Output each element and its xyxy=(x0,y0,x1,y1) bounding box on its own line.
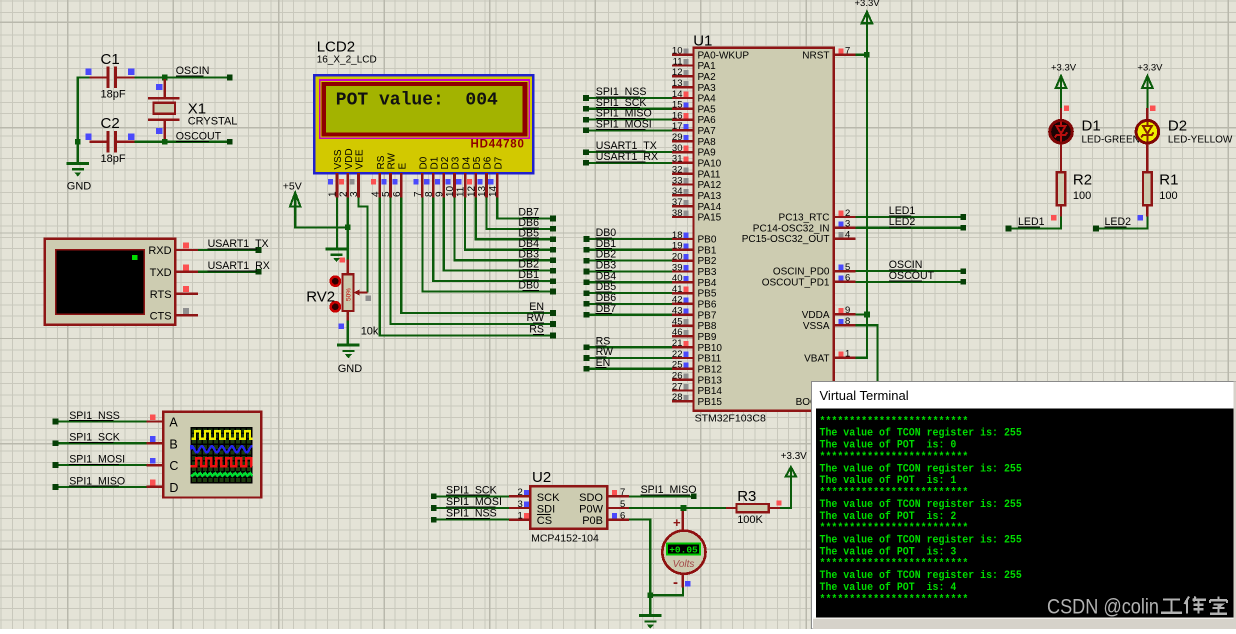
svg-text:DB7: DB7 xyxy=(596,303,617,315)
junction VDDA/+3.3V xyxy=(864,312,870,318)
wire LCD RS xyxy=(380,198,553,336)
svg-text:30: 30 xyxy=(672,143,683,154)
svg-text:SPI1_NSS: SPI1_NSS xyxy=(69,410,120,422)
pin state square LCD pin 5 xyxy=(382,179,387,184)
svg-text:13: 13 xyxy=(477,185,488,197)
wire SPI1_SCK (U2 side) xyxy=(434,495,509,497)
pin D of oscilloscope xyxy=(147,481,179,495)
svg-text:P0B: P0B xyxy=(582,515,603,527)
svg-text:HD44780: HD44780 xyxy=(470,138,524,150)
svg-text:16: 16 xyxy=(672,110,683,121)
pin 1 CS of U2 xyxy=(509,510,552,527)
svg-text:+3.3V: +3.3V xyxy=(855,0,881,9)
pin state square voltmeter minus xyxy=(685,581,690,586)
label USART1_TX xyxy=(208,238,269,250)
pin state square U2 pin 2 xyxy=(524,490,529,495)
svg-text:OSCOUT_PD1: OSCOUT_PD1 xyxy=(762,278,830,289)
wire P0B to ground xyxy=(629,520,650,616)
pin state square U1 pin 41 xyxy=(683,287,688,292)
svg-text:14: 14 xyxy=(672,89,683,100)
svg-text:VSSA: VSSA xyxy=(803,321,830,332)
svg-text:PC14-OSC32_IN: PC14-OSC32_IN xyxy=(753,223,830,234)
label LED1 (U1 side) xyxy=(889,205,916,217)
label USART1_RX xyxy=(208,260,270,272)
terminal SPI1_MISO (U1 side) xyxy=(583,117,589,123)
pin state square RTS xyxy=(183,286,189,292)
svg-text:41: 41 xyxy=(672,284,683,295)
wire LCD RW xyxy=(391,198,554,325)
svg-text:The value of TCON register is:: The value of TCON register is: 255 xyxy=(820,570,1023,582)
pin BOOT0 of U1 (partially hidden) xyxy=(796,397,830,408)
svg-text:SPI1_MOSI: SPI1_MOSI xyxy=(69,454,125,466)
svg-text:7: 7 xyxy=(620,487,625,498)
wire voltmeter minus to ground xyxy=(650,588,683,596)
svg-text:B: B xyxy=(169,437,177,451)
svg-text:33: 33 xyxy=(672,175,683,186)
pin 9 VDDA of U1 xyxy=(802,305,856,321)
pin state square LCD pin 4 xyxy=(371,179,376,184)
terminal DB4 (LCD side) xyxy=(550,247,556,253)
svg-text:CRYSTAL: CRYSTAL xyxy=(188,116,238,128)
wire TXD-USART1_RX xyxy=(198,271,259,273)
pin state square R2 bottom xyxy=(1051,215,1056,220)
wire DB7 (U1 side) xyxy=(587,314,673,316)
pin 7 SDO of U2 xyxy=(579,487,629,504)
pin 2 SCK of U2 xyxy=(509,487,560,504)
svg-text:USART1_RX: USART1_RX xyxy=(596,151,658,163)
svg-text:The value of TCON register is:: The value of TCON register is: 255 xyxy=(820,535,1023,547)
svg-text:RW: RW xyxy=(387,152,398,169)
svg-text:PB6: PB6 xyxy=(698,300,717,311)
terminal USART1_RX (U1 side) xyxy=(583,160,589,166)
wire SPI1_MISO (U1 side) xyxy=(586,118,672,120)
svg-text:D1: D1 xyxy=(1082,118,1101,135)
svg-text:9: 9 xyxy=(845,305,850,316)
voltmeter xyxy=(662,511,705,591)
svg-text:CSDN @colin: CSDN @colin xyxy=(1047,596,1159,619)
pin CTS of virtual terminal xyxy=(150,311,198,323)
label EN (U1 side) xyxy=(596,357,611,369)
ground GND (LCD VSS) xyxy=(325,249,347,262)
svg-text:7: 7 xyxy=(845,46,850,57)
node X1 top state square xyxy=(156,84,162,90)
wire C1-to-OSCIN xyxy=(135,76,230,78)
label OSCIN (U1 side) xyxy=(889,259,923,271)
pin 40 PB4 of U1 xyxy=(672,273,717,289)
svg-text:PB3: PB3 xyxy=(698,267,717,278)
wire DB0 (U1 side) xyxy=(587,238,673,240)
terminal SPI1_NSS (U1 side) xyxy=(583,95,589,101)
pin 11 D4 of LCD2 xyxy=(456,156,473,197)
wire LCD VDD down xyxy=(347,198,349,260)
svg-text:7: 7 xyxy=(413,191,424,197)
pin 37 PA14 of U1 xyxy=(672,197,722,213)
terminal LED2 (U1 side) xyxy=(961,225,967,231)
svg-text:46: 46 xyxy=(672,327,683,338)
svg-text:*************************: ************************* xyxy=(820,487,969,499)
svg-text:STM32F103C8: STM32F103C8 xyxy=(695,412,766,424)
svg-text:PB11: PB11 xyxy=(698,354,722,365)
wire +5V to LCD VDD xyxy=(295,207,348,228)
svg-text:37: 37 xyxy=(672,197,683,208)
pin state square U1 pin 40 xyxy=(683,276,688,281)
svg-text:50%: 50% xyxy=(346,288,353,301)
label DB4 (LCD side) xyxy=(518,238,539,250)
svg-text:17: 17 xyxy=(672,121,683,132)
svg-text:SPI1_SCK: SPI1_SCK xyxy=(69,432,120,444)
pin 28 PB15 of U1 xyxy=(672,392,722,408)
terminal SPI1_SCK (scope side) xyxy=(53,440,59,446)
svg-text:PB0: PB0 xyxy=(698,235,717,246)
svg-text:-: - xyxy=(673,574,678,591)
svg-text:2: 2 xyxy=(845,208,850,219)
label LED1 xyxy=(1018,216,1045,228)
svg-text:PB2: PB2 xyxy=(698,256,717,267)
wire LCD EN xyxy=(401,198,553,314)
svg-text:3: 3 xyxy=(518,499,523,510)
wire RS (U1 side) xyxy=(587,346,673,348)
pin 13 D6 of LCD2 xyxy=(477,156,494,197)
pin state square U1 pin 19 xyxy=(683,243,688,248)
pin 39 PB3 of U1 xyxy=(672,262,717,278)
pin 9 D2 of LCD2 xyxy=(434,156,451,197)
pin 14 D7 of LCD2 xyxy=(488,156,505,197)
pin state square U1 pin 30 xyxy=(683,146,688,151)
pin 45 PB8 of U1 xyxy=(672,316,717,332)
pin 4 PC15-OSC32_OUT of U1 xyxy=(742,229,856,245)
pin 17 PA7 of U1 xyxy=(672,121,716,137)
svg-text:RXD: RXD xyxy=(148,245,171,257)
svg-text:PA15: PA15 xyxy=(698,213,722,224)
pin 16 PA6 of U1 xyxy=(672,110,716,126)
pin state square U1 pin 2 xyxy=(838,211,843,216)
ground GND (RV2) xyxy=(337,345,362,375)
pin state square R1 bottom xyxy=(1138,215,1143,220)
svg-text:20: 20 xyxy=(672,251,683,262)
wire SPI1_MOSI (U2 side) xyxy=(434,507,509,509)
pin 5 P0W of U2 xyxy=(579,499,629,516)
svg-text:14: 14 xyxy=(488,185,499,197)
terminal cursor block xyxy=(132,255,137,260)
pin state square U1 pin 26 xyxy=(683,373,688,378)
pin state square LCD pin 1 xyxy=(328,179,333,184)
svg-text:PA10: PA10 xyxy=(698,159,722,170)
terminal OSCIN (U1 side) xyxy=(961,268,967,274)
terminal DB6 (LCD side) xyxy=(550,226,556,232)
label SPI1_SCK (U1 side) xyxy=(596,97,647,109)
pin state square U1 pin 46 xyxy=(683,330,688,335)
wire PC14-LED2 xyxy=(855,227,963,229)
svg-text:SPI1_MISO: SPI1_MISO xyxy=(69,475,125,487)
oscilloscope screen grid xyxy=(191,428,252,483)
wire GND-to-C1/C2 left vertical xyxy=(78,78,90,142)
pin state square U1 pin 28 xyxy=(683,395,688,400)
svg-text:19: 19 xyxy=(672,241,683,252)
wire LCD DB5 xyxy=(476,198,553,240)
svg-text:VDDA: VDDA xyxy=(802,310,830,321)
label USART1_TX (U1 side) xyxy=(596,140,657,152)
terminal DB6 (U1 side) xyxy=(584,301,590,307)
svg-text:5: 5 xyxy=(845,262,850,273)
svg-text:PA8: PA8 xyxy=(698,137,717,148)
pin state square LCD pin 3 xyxy=(350,179,355,184)
pin 30 PA9 of U1 xyxy=(672,143,716,159)
label OSCIN xyxy=(176,65,210,77)
wire +3.3V rail to NRST/VDDA/VBAT xyxy=(855,23,867,358)
label DB2 (LCD side) xyxy=(518,259,539,271)
pin state square LCD pin 9 xyxy=(435,179,440,184)
svg-text:100K: 100K xyxy=(737,514,763,526)
svg-text:D1: D1 xyxy=(429,156,440,169)
label DB7 (U1 side) xyxy=(596,303,617,315)
svg-text:1: 1 xyxy=(845,349,850,360)
svg-text:POT value: 004: POT value: 004 xyxy=(336,90,498,110)
svg-text:31: 31 xyxy=(672,154,683,165)
svg-text:PB12: PB12 xyxy=(698,364,723,375)
capacitor C1 xyxy=(90,51,135,101)
svg-text:6: 6 xyxy=(845,273,850,284)
svg-text:16_X_2_LCD: 16_X_2_LCD xyxy=(317,55,377,66)
svg-text:GND: GND xyxy=(67,181,92,193)
svg-text:PA2: PA2 xyxy=(698,72,717,83)
oscilloscope trace C red square wave xyxy=(191,458,252,466)
svg-text:D4: D4 xyxy=(461,156,472,169)
svg-text:PB14: PB14 xyxy=(698,386,723,397)
svg-text:E: E xyxy=(398,163,409,170)
svg-text:The value of POT is: 1: The value of POT is: 1 xyxy=(820,475,957,487)
svg-text:6: 6 xyxy=(392,191,403,197)
pin state square oscilloscope A xyxy=(150,414,156,420)
svg-text:SCK: SCK xyxy=(537,492,560,504)
svg-text:The value of POT is: 2: The value of POT is: 2 xyxy=(820,511,957,523)
wire LCD VSS to ground xyxy=(336,198,338,249)
svg-text:8: 8 xyxy=(424,191,435,197)
svg-text:18pF: 18pF xyxy=(101,89,126,101)
terminal DB0 (U1 side) xyxy=(584,236,590,242)
pin RTS of virtual terminal xyxy=(150,289,198,301)
pin 5 RW of LCD2 xyxy=(381,152,398,197)
svg-text:5: 5 xyxy=(381,191,392,197)
wire RW (U1 side) xyxy=(587,357,673,359)
pin state square U1 pin 10 xyxy=(683,48,688,53)
svg-text:A: A xyxy=(169,416,178,430)
pin 8 D1 of LCD2 xyxy=(424,156,441,197)
pin 2 PC13_RTC of U1 xyxy=(779,208,856,224)
svg-text:USART1_TX: USART1_TX xyxy=(208,238,269,250)
label DB4 (U1 side) xyxy=(596,270,617,282)
pin state square LCD pin 8 xyxy=(424,179,429,184)
LCD display LCD2 titles xyxy=(317,39,377,66)
svg-text:LED2: LED2 xyxy=(889,216,916,228)
pin 6 OSCOUT_PD1 of U1 xyxy=(762,273,856,289)
svg-text:8: 8 xyxy=(845,316,850,327)
wire DB3 (U1 side) xyxy=(587,270,673,272)
label SPI1_MOSI (U1 side) xyxy=(596,119,652,131)
label DB3 (LCD side) xyxy=(518,248,539,260)
pin state square U1 pin 43 xyxy=(683,308,688,313)
svg-text:OSCIN: OSCIN xyxy=(176,65,210,77)
pin state square LCD pin 14 xyxy=(488,179,493,184)
oscilloscope body xyxy=(163,412,261,498)
wire LCD VEE to RV2 wiper xyxy=(359,198,368,293)
pin 7 D0 of LCD2 xyxy=(413,156,430,197)
terminal OSCIN xyxy=(227,75,233,81)
oscilloscope trace B blue sine xyxy=(191,446,252,452)
terminal SPI1_MISO (scope side) xyxy=(53,484,59,490)
svg-text:34: 34 xyxy=(672,186,683,197)
wire R2 to LED1 xyxy=(1009,217,1062,229)
svg-text:The value of POT is: 4: The value of POT is: 4 xyxy=(820,582,957,594)
pin state square U1 pin 33 xyxy=(683,178,688,183)
svg-text:11: 11 xyxy=(456,186,467,197)
pin state square U1 pin 14 xyxy=(683,92,688,97)
label DB1 (LCD side) xyxy=(518,269,539,281)
pin state square U1 pin 16 xyxy=(683,113,688,118)
svg-text:39: 39 xyxy=(672,262,683,273)
svg-text:RTS: RTS xyxy=(150,289,172,301)
pin state square CTS xyxy=(183,308,189,314)
pin state square U1 pin 8 xyxy=(838,319,843,324)
svg-text:18: 18 xyxy=(672,230,683,241)
svg-text:*************************: ************************* xyxy=(820,558,969,570)
svg-text:28: 28 xyxy=(672,392,683,403)
wire OSCOUT (U1 side) xyxy=(855,281,963,283)
svg-text:38: 38 xyxy=(672,208,683,219)
svg-text:4: 4 xyxy=(845,229,850,240)
svg-text:The value of POT is: 0: The value of POT is: 0 xyxy=(820,440,957,452)
svg-text:1: 1 xyxy=(328,191,339,197)
pin state square LCD pin 7 xyxy=(413,179,418,184)
svg-text:*************************: ************************* xyxy=(820,451,969,463)
pin 10 PA0-WKUP of U1 xyxy=(672,46,749,62)
svg-text:D5: D5 xyxy=(472,156,483,169)
wire PC13-LED1 xyxy=(855,216,963,218)
pin 5 OSCIN_PD0 of U1 xyxy=(773,262,856,278)
svg-text:TXD: TXD xyxy=(150,267,172,279)
pin state square LCD pin 6 xyxy=(392,179,397,184)
terminal SPI1_SCK (U2 side) xyxy=(431,494,437,500)
svg-text:D3: D3 xyxy=(451,156,462,169)
pin state square U1 pin 5 xyxy=(838,265,843,270)
wire LCD DB4 xyxy=(465,198,553,250)
svg-text:C: C xyxy=(169,459,178,473)
svg-text:40: 40 xyxy=(672,273,683,284)
pin 43 PB7 of U1 xyxy=(672,306,717,322)
terminal EN (U1 side) xyxy=(584,366,590,372)
pin state square U1 pin 21 xyxy=(683,341,688,346)
pin state square U1 pin 38 xyxy=(683,211,688,216)
svg-text:27: 27 xyxy=(672,381,683,392)
pin 41 PB5 of U1 xyxy=(672,284,717,300)
pin state square U1 pin 31 xyxy=(683,157,688,162)
pin 26 PB13 of U1 xyxy=(672,371,722,387)
wire LCD DB0 xyxy=(422,198,553,292)
svg-text:PC13_RTC: PC13_RTC xyxy=(779,213,830,224)
wire SPI1_SCK (scope side) xyxy=(56,442,147,444)
terminal EN (LCD side) xyxy=(550,310,556,316)
pin 15 PA5 of U1 xyxy=(672,100,716,116)
wire DB2 (U1 side) xyxy=(587,260,673,262)
pin 4 RS of LCD2 xyxy=(370,155,387,197)
terminal RW (LCD side) xyxy=(550,321,556,327)
svg-text:32: 32 xyxy=(672,165,683,176)
pin state square U1 pin 45 xyxy=(683,319,688,324)
pin state square U1 pin 3 xyxy=(838,221,843,226)
terminal LED1 (U1 side) xyxy=(961,214,967,220)
pin 3 SDI of U2 xyxy=(509,499,555,516)
svg-text:5: 5 xyxy=(620,499,625,510)
pin state square U1 pin 1 xyxy=(838,351,843,356)
svg-text:PB10: PB10 xyxy=(698,343,723,354)
pin state square U2 pin 7 xyxy=(612,490,617,495)
wire SPI1_NSS (U1 side) xyxy=(586,97,672,99)
pin state square U1 pin 12 xyxy=(683,70,688,75)
terminal USART1_RX xyxy=(256,269,262,275)
label SPI1_MOSI (scope side) xyxy=(69,454,125,466)
wire USART1_TX (U1 side) xyxy=(586,151,672,153)
pin state square U1 pin 25 xyxy=(683,362,688,367)
svg-text:VDD: VDD xyxy=(344,148,355,169)
terminal RW (U1 side) xyxy=(584,355,590,361)
terminal DB2 (U1 side) xyxy=(584,258,590,264)
pin B of oscilloscope xyxy=(147,437,178,451)
pin state square oscilloscope D xyxy=(150,480,156,486)
svg-text:PA12: PA12 xyxy=(698,180,722,191)
svg-text:43: 43 xyxy=(672,306,683,317)
pin 7 NRST of U1 xyxy=(802,46,855,62)
pin state square U1 pin 29 xyxy=(683,135,688,140)
svg-text:MCP4152-104: MCP4152-104 xyxy=(531,533,599,545)
svg-text:GND: GND xyxy=(338,363,363,375)
terminal DB1 (U1 side) xyxy=(584,247,590,253)
label SPI1_NSS (U2 side) xyxy=(446,508,497,520)
svg-text:OSCIN_PD0: OSCIN_PD0 xyxy=(773,267,830,278)
svg-text:PB9: PB9 xyxy=(698,332,717,343)
wire EN (U1 side) xyxy=(587,368,673,370)
wire P0W to R3 and voltmeter xyxy=(629,507,726,509)
svg-text:SDO: SDO xyxy=(579,492,603,504)
pin state square U1 pin 34 xyxy=(683,189,688,194)
label RW (LCD side) xyxy=(527,312,544,324)
svg-text:RS: RS xyxy=(376,155,387,169)
svg-text:VBAT: VBAT xyxy=(804,353,829,364)
label DB7 (LCD side) xyxy=(518,207,539,219)
wire LCD DB3 xyxy=(455,198,554,261)
svg-text:3: 3 xyxy=(845,219,850,230)
label DB1 (U1 side) xyxy=(596,238,617,250)
pin state square U1 pin 9 xyxy=(838,308,843,313)
wire SPI1_NSS (scope side) xyxy=(56,420,147,422)
wire DB6 (U1 side) xyxy=(587,303,673,305)
pin 2 VDD of LCD2 xyxy=(338,148,355,197)
pin state square U1 pin 7 xyxy=(838,48,843,53)
svg-text:PB8: PB8 xyxy=(698,321,717,332)
pin state square U1 pin 42 xyxy=(683,298,688,303)
pin state square U1 pin 4 xyxy=(838,232,843,237)
label DB0 (U1 side) xyxy=(596,227,617,239)
svg-text:Volts: Volts xyxy=(673,559,695,570)
pin TXD of virtual terminal xyxy=(150,267,198,279)
svg-text:100: 100 xyxy=(1159,190,1177,202)
oscilloscope trace A yellow square wave xyxy=(191,431,252,439)
terminal DB1 (LCD side) xyxy=(550,278,556,284)
op-amp U1 STM32F103C8 body xyxy=(693,33,834,425)
ground GND (U2) xyxy=(639,616,661,629)
label SPI1_MISO (scope side) xyxy=(69,475,125,487)
svg-text:PB13: PB13 xyxy=(698,375,723,386)
svg-text:2: 2 xyxy=(338,191,349,197)
wire VSSA down xyxy=(855,325,877,382)
